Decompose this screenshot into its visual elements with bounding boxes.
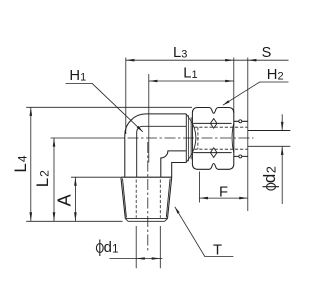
H2 leader arrowhead	[223, 100, 230, 105]
male thread T (tapered)	[121, 177, 172, 221]
svg-text:A: A	[54, 194, 74, 206]
thread hidden bore lines	[136, 180, 160, 218]
label phi-d2 (rotated)	[260, 166, 279, 190]
centerline vertical	[147, 142, 149, 252]
sleeve grip circles	[239, 120, 242, 158]
L2 dimension arrows	[53, 138, 56, 147]
svg-text:S: S	[262, 45, 272, 61]
phi-d1 dimension arrows	[136, 257, 145, 260]
dimension phi-d1	[110, 226, 163, 268]
elbow body outline	[125, 114, 187, 177]
body end face	[186, 114, 192, 163]
dimension A	[71, 177, 121, 221]
dimension L2	[51, 138, 125, 221]
nut hex flat edges	[193, 123, 231, 152]
nut hidden thread lines	[194, 127, 247, 149]
nut groove diamonds	[210, 119, 217, 158]
nut H2 hex outline	[192, 108, 233, 170]
leader H1	[66, 83, 143, 131]
bottom extension line	[26, 220, 122, 222]
arrowheads	[30, 59, 284, 260]
A dimension arrows	[74, 177, 77, 186]
S dimension arrow	[248, 59, 257, 62]
svg-text:F: F	[219, 184, 228, 200]
L1 dimension arrows	[149, 80, 158, 83]
dimension L1	[149, 74, 234, 163]
sleeve	[234, 121, 248, 156]
dimension L4	[26, 107, 192, 221]
nut end chamfer curves	[192, 123, 233, 152]
leader H2	[223, 82, 289, 105]
L3 dimension arrows	[126, 59, 135, 62]
F dimension arrows	[199, 197, 208, 200]
dimension phi-d2	[281, 114, 283, 204]
dimension S	[234, 58, 289, 212]
T leader arrowhead	[175, 207, 180, 214]
elbow inner contour (bend second contour)	[137, 126, 187, 177]
dimension F	[199, 172, 247, 203]
dimension L3	[126, 58, 234, 135]
leader T	[175, 207, 234, 257]
L4 dimension arrows	[30, 107, 33, 116]
phi-d2 dimension arrows	[281, 122, 284, 131]
H1 leader arrowhead	[137, 126, 143, 132]
svg-text:T: T	[213, 243, 222, 259]
label phi-d1	[96, 240, 118, 257]
centerline horizontal	[128, 137, 254, 139]
tube d2	[248, 131, 290, 147]
